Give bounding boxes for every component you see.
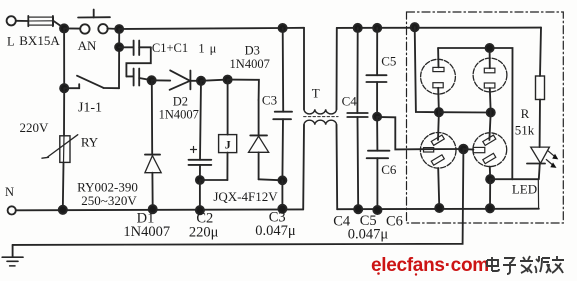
wire xyxy=(439,111,491,113)
svg-text:0.047μ: 0.047μ xyxy=(255,223,296,239)
resistor R xyxy=(536,28,545,148)
wire N link horizontal xyxy=(490,178,538,180)
node C5-C6 midpoint junction xyxy=(373,113,381,121)
wire xyxy=(152,79,171,81)
svg-text:L: L xyxy=(7,34,15,48)
capacitor C2 electrolytic xyxy=(189,81,212,180)
svg-text:C6: C6 xyxy=(381,162,397,177)
node C3 bus junction xyxy=(278,205,286,213)
wire top rail right segment xyxy=(337,27,541,29)
diode D1 xyxy=(145,80,161,209)
varistor RY xyxy=(42,88,78,210)
wire xyxy=(201,80,228,81)
capacitor C5 xyxy=(366,28,386,117)
wire xyxy=(199,180,201,210)
node socket N top junction xyxy=(486,44,494,52)
node socket L left junction xyxy=(435,108,443,116)
wire midpoint tap to sockets xyxy=(377,117,421,149)
diode D3 xyxy=(249,100,283,180)
ground symbol xyxy=(2,245,23,266)
wire xyxy=(489,179,491,208)
node C4 top junction xyxy=(354,24,362,32)
terminal N xyxy=(8,206,16,214)
node J1-1 left junction xyxy=(60,84,68,92)
wire through socket to center node xyxy=(421,148,464,150)
wire xyxy=(63,28,65,88)
svg-text:C6: C6 xyxy=(386,214,403,230)
wire xyxy=(228,80,259,100)
diode D2 xyxy=(170,70,201,89)
wire jog between C1 caps xyxy=(126,47,150,76)
node socket XS4 bus junction xyxy=(486,204,494,212)
wire xyxy=(53,21,64,28)
socket XS3 three-pole xyxy=(420,112,456,208)
svg-text:T: T xyxy=(312,86,320,101)
capacitor C1 lower xyxy=(126,69,151,86)
wire xyxy=(107,28,119,31)
svg-text:C5: C5 xyxy=(381,54,396,69)
svg-text:1: 1 xyxy=(198,42,204,56)
wire xyxy=(200,179,228,181)
svg-text:250~320V: 250~320V xyxy=(81,193,137,208)
wire ground drop xyxy=(13,149,464,245)
node LED return junction xyxy=(486,175,494,183)
wire xyxy=(118,29,120,88)
svg-text:μ: μ xyxy=(210,42,217,56)
node socket XS3 bus junction xyxy=(435,204,443,212)
svg-text:1N4007: 1N4007 xyxy=(159,107,199,121)
transformer T common-mode choke xyxy=(303,28,338,210)
svg-text:J: J xyxy=(225,138,231,152)
svg-text:R: R xyxy=(521,106,530,121)
wire xyxy=(64,27,80,29)
node RY bottom junction xyxy=(59,206,67,214)
socket XS1 two-pole xyxy=(421,48,456,112)
node C3 top junction xyxy=(279,24,287,32)
node B junction xyxy=(115,25,123,33)
dashed enclosure sockets xyxy=(407,12,564,223)
node C5 top junction xyxy=(373,24,381,32)
svg-text:220V: 220V xyxy=(20,120,50,135)
svg-text:J1-1: J1-1 xyxy=(78,101,102,116)
svg-text:AN: AN xyxy=(78,38,97,53)
pushbutton AN xyxy=(78,10,110,34)
svg-text:1N4007: 1N4007 xyxy=(230,57,270,71)
svg-text:C1+C1: C1+C1 xyxy=(152,41,188,55)
svg-text:LED: LED xyxy=(512,182,537,197)
node C2 bottom junction xyxy=(196,176,204,184)
capacitor C6 xyxy=(367,117,390,210)
LED xyxy=(527,147,558,179)
node D1 top junction xyxy=(148,76,156,84)
node D3 bottom junction xyxy=(278,176,286,184)
svg-text:RY: RY xyxy=(81,135,99,150)
node C6 bus junction xyxy=(373,206,381,214)
svg-text:1N4007: 1N4007 xyxy=(123,224,170,240)
svg-text:D3: D3 xyxy=(245,43,260,57)
node D1 bottom junction xyxy=(149,205,157,213)
node socket feed junction xyxy=(411,23,419,31)
node C4 bus junction xyxy=(354,205,362,213)
node socket L right junction xyxy=(487,108,495,116)
node ground center junction xyxy=(459,145,468,154)
wire bottom rail left segment xyxy=(16,208,303,211)
svg-text:220μ: 220μ xyxy=(189,224,219,240)
svg-text:D2: D2 xyxy=(173,94,188,108)
wire top rail left segment xyxy=(119,28,304,29)
relay contact J1-1 xyxy=(64,76,119,89)
svg-text:JQX-4F12V: JQX-4F12V xyxy=(213,189,278,204)
socket XS4 three-pole xyxy=(473,113,507,180)
wire bottom rail right segment xyxy=(337,208,539,211)
capacitor C4 xyxy=(347,28,367,209)
svg-text:N: N xyxy=(5,185,14,199)
wire xyxy=(281,180,283,209)
node C2 bus junction xyxy=(196,206,204,214)
node A junction xyxy=(60,24,68,32)
wire xyxy=(537,179,539,209)
svg-text:C4: C4 xyxy=(342,93,358,108)
capacitor C3 xyxy=(273,28,292,180)
wire L feed inside box xyxy=(415,27,439,112)
svg-text:0.047μ: 0.047μ xyxy=(348,226,389,242)
terminal L xyxy=(7,16,16,25)
node C1 tap junction xyxy=(115,43,123,51)
fuse BX15A xyxy=(28,16,53,26)
capacitor C1 upper xyxy=(119,41,151,56)
watermark logo drips xyxy=(377,272,380,275)
watermark chinese characters xyxy=(487,256,564,274)
svg-text:BX15A: BX15A xyxy=(19,33,60,48)
svg-text:elecfans·com: elecfans·com xyxy=(371,255,489,276)
socket XS2 two-pole xyxy=(473,48,507,113)
relay coil J xyxy=(219,80,237,180)
node C2 top junction xyxy=(197,77,205,85)
node J coil top junction xyxy=(224,76,232,84)
wire xyxy=(463,148,473,151)
wire xyxy=(16,20,28,22)
svg-text:C3: C3 xyxy=(262,93,277,108)
wire socket tops N link xyxy=(438,48,512,179)
svg-text:51k: 51k xyxy=(515,123,535,138)
